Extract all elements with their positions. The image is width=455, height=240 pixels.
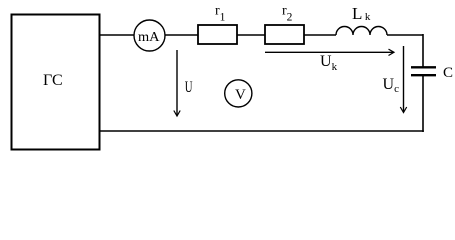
signal generator GS box xyxy=(12,15,100,150)
svg-text:mA: mA xyxy=(138,30,160,45)
svg-text:Uc: Uc xyxy=(383,76,400,95)
svg-text:Lk: Lk xyxy=(352,4,371,23)
voltage arrow Uc xyxy=(400,46,406,113)
wire: Lk to top-right corner xyxy=(387,34,423,36)
voltage arrow Uk xyxy=(265,49,394,55)
wire: milliammeter to r1 xyxy=(165,34,198,36)
svg-text:r2: r2 xyxy=(282,4,293,24)
svg-text:C: C xyxy=(443,65,453,81)
wire: r2 to Lk xyxy=(304,34,336,36)
wire: r1 to r2 xyxy=(237,34,265,36)
milliammeter mA xyxy=(134,20,165,51)
svg-text:Uk: Uk xyxy=(320,53,338,73)
capacitor C xyxy=(411,67,436,75)
svg-text:ГС: ГС xyxy=(43,72,63,89)
inductor Lk xyxy=(336,27,387,36)
wire: capacitor to bottom wire xyxy=(422,76,424,132)
resistor r1 xyxy=(198,25,237,44)
wire: right vertical down to capacitor xyxy=(422,34,424,67)
wire: generator to milliammeter xyxy=(100,34,134,36)
voltmeter V xyxy=(225,80,252,107)
bottom wire: generator to right side xyxy=(100,130,424,132)
svg-text:U: U xyxy=(185,79,193,96)
svg-text:V: V xyxy=(235,87,246,103)
voltage arrow U xyxy=(174,50,180,116)
resistor r2 xyxy=(265,25,304,44)
svg-text:r1: r1 xyxy=(215,4,226,24)
